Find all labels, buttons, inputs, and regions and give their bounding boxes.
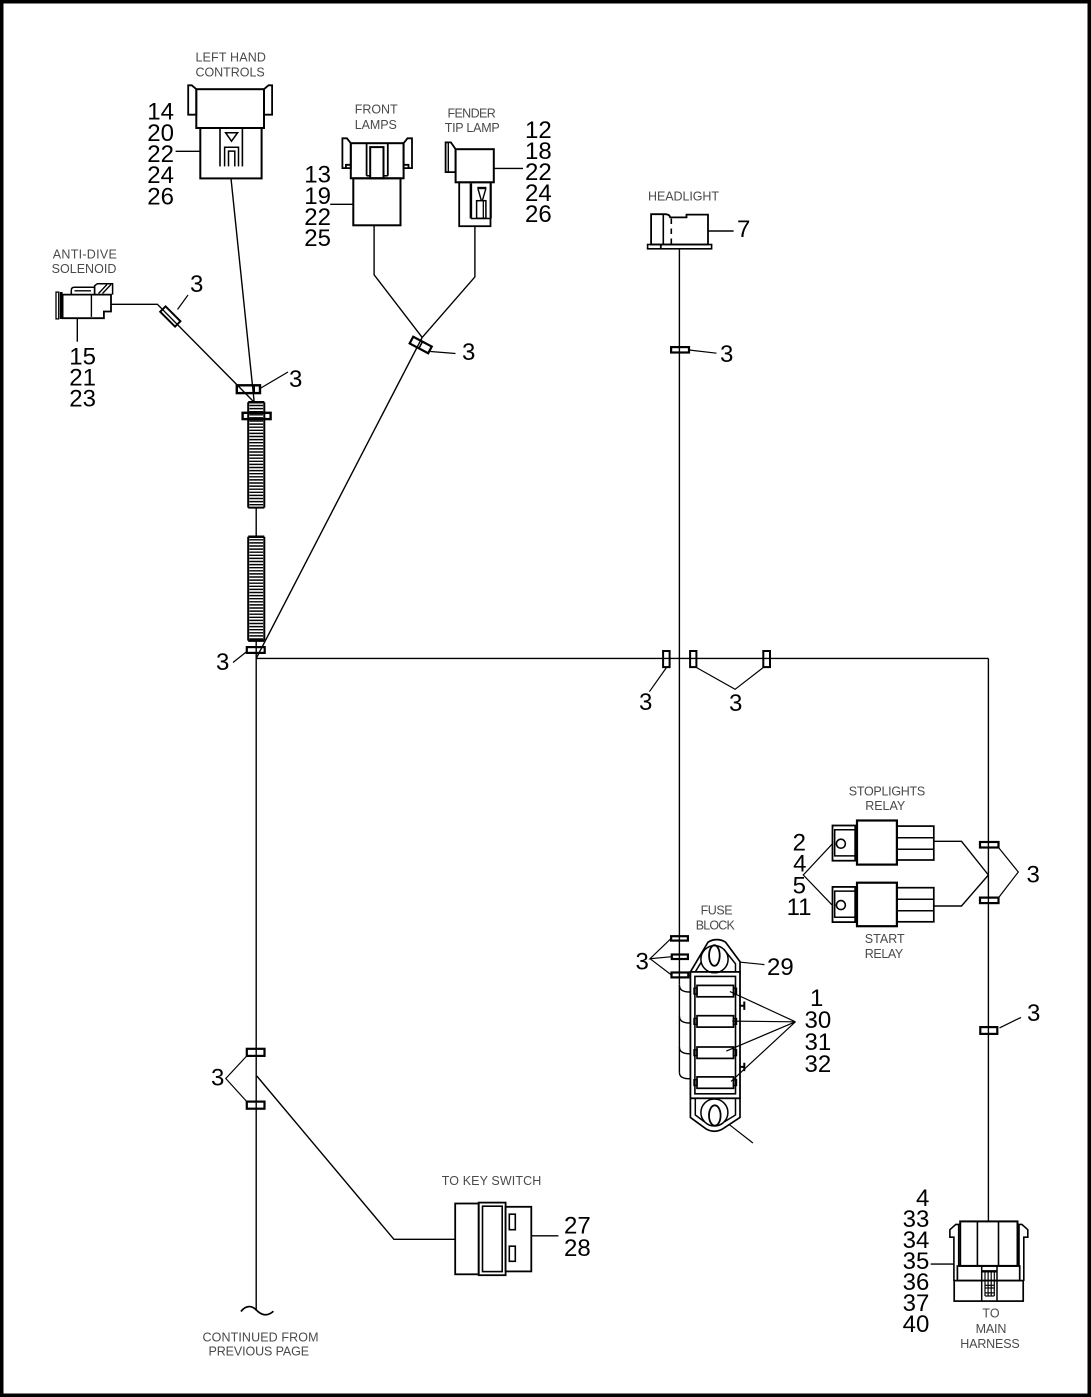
svg-text:25: 25 [304, 225, 331, 252]
conduit upper section [248, 402, 264, 507]
leader V to 3 (two straps) [696, 668, 763, 690]
svg-text:TIP LAMP: TIP LAMP [445, 121, 500, 135]
svg-text:CONTINUED FROM: CONTINUED FROM [203, 1330, 319, 1344]
conduit clamp band [243, 413, 271, 419]
svg-text:RELAY: RELAY [865, 799, 906, 813]
label: FENDER TIP LAMP [445, 107, 500, 135]
svg-text:3: 3 [190, 271, 203, 298]
relay: stoplights [833, 821, 934, 865]
leader: 19 to connector [330, 203, 353, 205]
fuse block: bottom mounting tab [690, 1098, 740, 1131]
cable strap left of headlight wire crossing [663, 651, 670, 667]
label: CONTINUED FROM PREVIOUS PAGE [203, 1330, 319, 1358]
cable strap: conduit top [237, 385, 260, 393]
leader: connector to 7 [708, 230, 734, 232]
svg-text:7: 7 [737, 216, 750, 243]
pin numbers 27 28 [564, 1213, 591, 1263]
svg-text:BLOCK: BLOCK [696, 918, 736, 932]
svg-text:3: 3 [1027, 862, 1040, 889]
cable strap lower left (key switch branch) [247, 1102, 265, 1109]
leader to 3 (anti-dive strap) [178, 295, 189, 310]
svg-text:MAIN: MAIN [976, 1322, 1007, 1336]
tab between fuses (lower) [740, 1063, 744, 1071]
leader fan to 3 (fuse straps) [650, 938, 672, 975]
connector: key switch [455, 1203, 531, 1276]
svg-text:START: START [865, 932, 905, 946]
svg-text:26: 26 [525, 201, 552, 228]
svg-text:3: 3 [729, 690, 742, 717]
cable strap on anti-dive wire [160, 306, 180, 326]
svg-text:ANTI-DIVE: ANTI-DIVE [53, 247, 117, 261]
pin numbers 2 4 5 11 [787, 830, 812, 921]
cable strap on right harness run [980, 1027, 997, 1034]
svg-text:3: 3 [289, 366, 302, 393]
leader: 22 to fender connector [494, 167, 523, 169]
connector: front lamps [342, 138, 412, 225]
svg-text:23: 23 [69, 386, 96, 413]
svg-text:CONTROLS: CONTROLS [196, 65, 265, 79]
cable strap lower (relay area) [980, 898, 999, 904]
leader to 3 (lamps junction strap) [431, 352, 456, 354]
connector: headlight [648, 214, 712, 249]
svg-text:3: 3 [211, 1065, 224, 1092]
svg-text:28: 28 [564, 1235, 591, 1262]
tab between fuses (upper) [740, 1002, 744, 1010]
cable strap at lamps junction [410, 337, 432, 354]
label: FUSE BLOCK [696, 904, 736, 933]
svg-text:3: 3 [216, 649, 229, 676]
svg-text:HEADLIGHT: HEADLIGHT [648, 190, 719, 204]
svg-text:FENDER: FENDER [447, 107, 495, 121]
wire: stoplights relay to harness [934, 841, 989, 875]
label: FRONT LAMPS [355, 103, 398, 133]
leader: top tab to 29 [741, 962, 765, 964]
cable strap on headlight wire [671, 347, 689, 352]
fuse 2 [694, 1016, 737, 1027]
svg-text:3: 3 [639, 689, 652, 716]
leader from bottom tab [729, 1125, 753, 1143]
svg-text:RELAY: RELAY [865, 947, 904, 961]
svg-text:FUSE: FUSE [701, 904, 733, 918]
svg-text:11: 11 [787, 894, 812, 921]
pin numbers 1 30 31 32 [805, 985, 832, 1078]
svg-text:PREVIOUS PAGE: PREVIOUS PAGE [209, 1344, 310, 1358]
wire branches into fuse block [679, 985, 690, 1079]
svg-text:26: 26 [147, 183, 174, 210]
fuse 1 [694, 985, 737, 996]
svg-text:LAMPS: LAMPS [355, 118, 397, 132]
svg-text:3: 3 [1027, 1000, 1040, 1027]
pin numbers 12 18 22 24 26 [525, 117, 552, 228]
label: START RELAY [865, 932, 905, 961]
cable strap right of headlight wire crossing [690, 651, 696, 667]
svg-text:STOPLIGHTS: STOPLIGHTS [849, 785, 926, 799]
fuse 3 [694, 1047, 737, 1058]
svg-text:SOLENOID: SOLENOID [52, 262, 117, 276]
leader to 3 (right harness strap) [1000, 1017, 1022, 1028]
leader to 3 (below conduit) [233, 652, 247, 663]
pin numbers 14 20 22 24 26 [147, 99, 174, 211]
wire: branch to key switch [257, 1076, 455, 1239]
leader: connector to 15 [76, 318, 78, 342]
leader: 35 to connector [931, 1263, 955, 1265]
fuse block: body [690, 972, 740, 1098]
wire: front lamps down [374, 225, 422, 337]
fuse block: top mounting tab [690, 940, 740, 973]
leader fan: fuses to pin numbers [726, 992, 795, 1082]
wire: lamps junction to conduit junction [256, 337, 422, 658]
svg-text:HARNESS: HARNESS [960, 1337, 1019, 1351]
cable strap farther right on horizontal run [763, 651, 770, 667]
wire: left hand controls to conduit [231, 178, 254, 402]
wire: headlight down to fuse block [678, 249, 680, 985]
svg-text:29: 29 [767, 954, 794, 981]
fuse 4 [694, 1077, 737, 1088]
wire: key switch to 27/28 [531, 1235, 558, 1237]
wire: between conduit sections [255, 508, 257, 537]
wire: main horizontal harness run [256, 657, 988, 659]
conduit lower section [248, 537, 264, 641]
svg-text:TO: TO [982, 1307, 999, 1321]
wire: fender tip lamp down [422, 226, 475, 337]
cable strap below conduit [247, 647, 265, 653]
wire: main vertical harness run (right) [987, 658, 989, 1221]
svg-text:3: 3 [720, 341, 733, 368]
svg-text:40: 40 [903, 1311, 930, 1338]
label: TO MAIN HARNESS [960, 1307, 1019, 1351]
leader to 3 (headlight strap) [689, 350, 717, 353]
connector: left hand controls [188, 85, 272, 178]
cable straps on headlight wire at fuse block (x3) [671, 936, 688, 940]
leader V to 3 (key switch straps) [226, 1056, 247, 1102]
wire: start relay to harness [934, 875, 989, 906]
svg-text:32: 32 [805, 1051, 832, 1078]
svg-text:TO KEY SWITCH: TO KEY SWITCH [442, 1174, 542, 1188]
leader V to 3 (relay straps) [999, 848, 1019, 898]
pin numbers 13 19 22 25 [304, 162, 331, 252]
leader to 3 (conduit top strap) [260, 372, 288, 389]
leader to 3 [649, 668, 666, 692]
svg-text:FRONT: FRONT [355, 103, 398, 117]
label: LEFT HAND CONTROLS [195, 51, 266, 80]
squiggle: continued from previous page [241, 1307, 273, 1315]
leader V: relays to pin numbers [803, 844, 832, 906]
wire: conduit to junction and down [255, 641, 257, 1310]
cable strap upper left (key switch branch) [247, 1049, 265, 1056]
pin numbers 15 21 23 [69, 344, 96, 413]
label: STOPLIGHTS RELAY [849, 785, 926, 813]
svg-text:LEFT HAND: LEFT HAND [195, 51, 266, 65]
wire: anti-dive solenoid to conduit [111, 304, 254, 402]
connector: anti-dive solenoid [56, 284, 113, 319]
leader: 22 to connector [176, 150, 201, 152]
connector: to main harness [950, 1221, 1028, 1301]
svg-text:3: 3 [636, 948, 649, 975]
pin numbers 4 33 34 35 36 37 40 [903, 1185, 930, 1338]
relay: start [833, 883, 934, 927]
cable strap upper (relay area) [980, 842, 999, 848]
connector: fender tip lamp [446, 142, 494, 226]
label: ANTI-DIVE SOLENOID [52, 247, 117, 275]
svg-text:3: 3 [462, 339, 475, 366]
